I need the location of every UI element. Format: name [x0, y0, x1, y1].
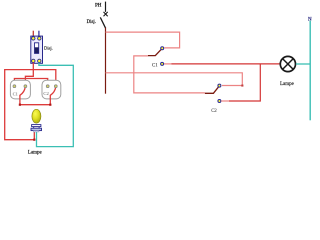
wire neutral loop (teal): [37, 63, 74, 147]
wire lamp to neutral: [296, 63, 310, 65]
breaker terminal top-left: [32, 37, 35, 40]
supply stub neutral (navy): [38, 31, 40, 37]
switch C2 terminal 2: [218, 100, 221, 103]
junction lever right: [49, 104, 51, 106]
svg-text:PH: PH: [95, 4, 102, 9]
breaker terminal bottom-left: [32, 59, 35, 62]
C2 terminal left: [46, 85, 49, 88]
wire between switch levers: [20, 104, 50, 106]
svg-text:C1: C1: [152, 64, 158, 69]
C1 terminal right: [24, 85, 27, 88]
wire C2 terminal 2 stub: [221, 100, 229, 102]
wire breaker to C1 common: [25, 63, 33, 85]
breaker contact X symbol: [104, 12, 108, 16]
svg-text:Lampe: Lampe: [28, 151, 43, 156]
wire C1 terminal 2 stub: [164, 63, 171, 65]
switch C1 terminal 1: [161, 47, 164, 50]
breaker blade Disj (schematic): [100, 17, 105, 28]
lamp symbol (schematic): [280, 56, 295, 71]
supply stub phase (red): [32, 31, 34, 37]
junction lever left: [19, 104, 21, 106]
svg-text:Lampe: Lampe: [280, 82, 295, 87]
wire line B phase to C2 terminal 1: [106, 73, 243, 86]
C2 terminal right: [54, 85, 57, 88]
wire phase bus (maroon): [105, 28, 107, 94]
junction line B / C2 stub corner: [241, 85, 243, 87]
C1 terminal left: [13, 85, 16, 88]
lamp socket: [31, 125, 42, 132]
wall switch C2 box: [42, 80, 61, 99]
wire phase feed and lamp return (red bus): [5, 70, 56, 140]
circuit breaker Disj body: [31, 36, 43, 63]
wall switch C1 box: [10, 80, 30, 99]
switch C2 terminal 1: [218, 84, 221, 87]
svg-text:C2: C2: [211, 109, 217, 114]
wire C2 terminal 2 to lamp wire: [229, 64, 260, 101]
svg-text:C1: C1: [13, 91, 19, 96]
svg-text:N: N: [308, 17, 312, 22]
switch C2 blade: [205, 86, 219, 93]
switch C1 terminal 2: [161, 62, 164, 65]
svg-text:Disj.: Disj.: [87, 20, 96, 25]
C2 lever: [50, 87, 56, 105]
svg-text:Disj.: Disj.: [44, 45, 53, 50]
wire traveler bus C1-C2: [14, 79, 47, 85]
C1 lever: [20, 86, 26, 104]
wire C1 pivot to C2 pivot: [134, 56, 205, 93]
breaker terminal top-right: [38, 37, 41, 40]
breaker toggle: [35, 43, 39, 54]
wire PH supply: [105, 2, 107, 12]
wire branch phase to C1 terminal 1: [106, 32, 180, 48]
svg-text:C2: C2: [43, 91, 49, 96]
switch C1 blade: [148, 49, 162, 55]
wire N neutral line: [309, 21, 311, 121]
junction lamp corner: [33, 139, 35, 141]
breaker terminal bottom-right: [38, 59, 41, 62]
lamp bulb: [32, 109, 41, 123]
wire to lamp (phase return): [171, 63, 279, 65]
